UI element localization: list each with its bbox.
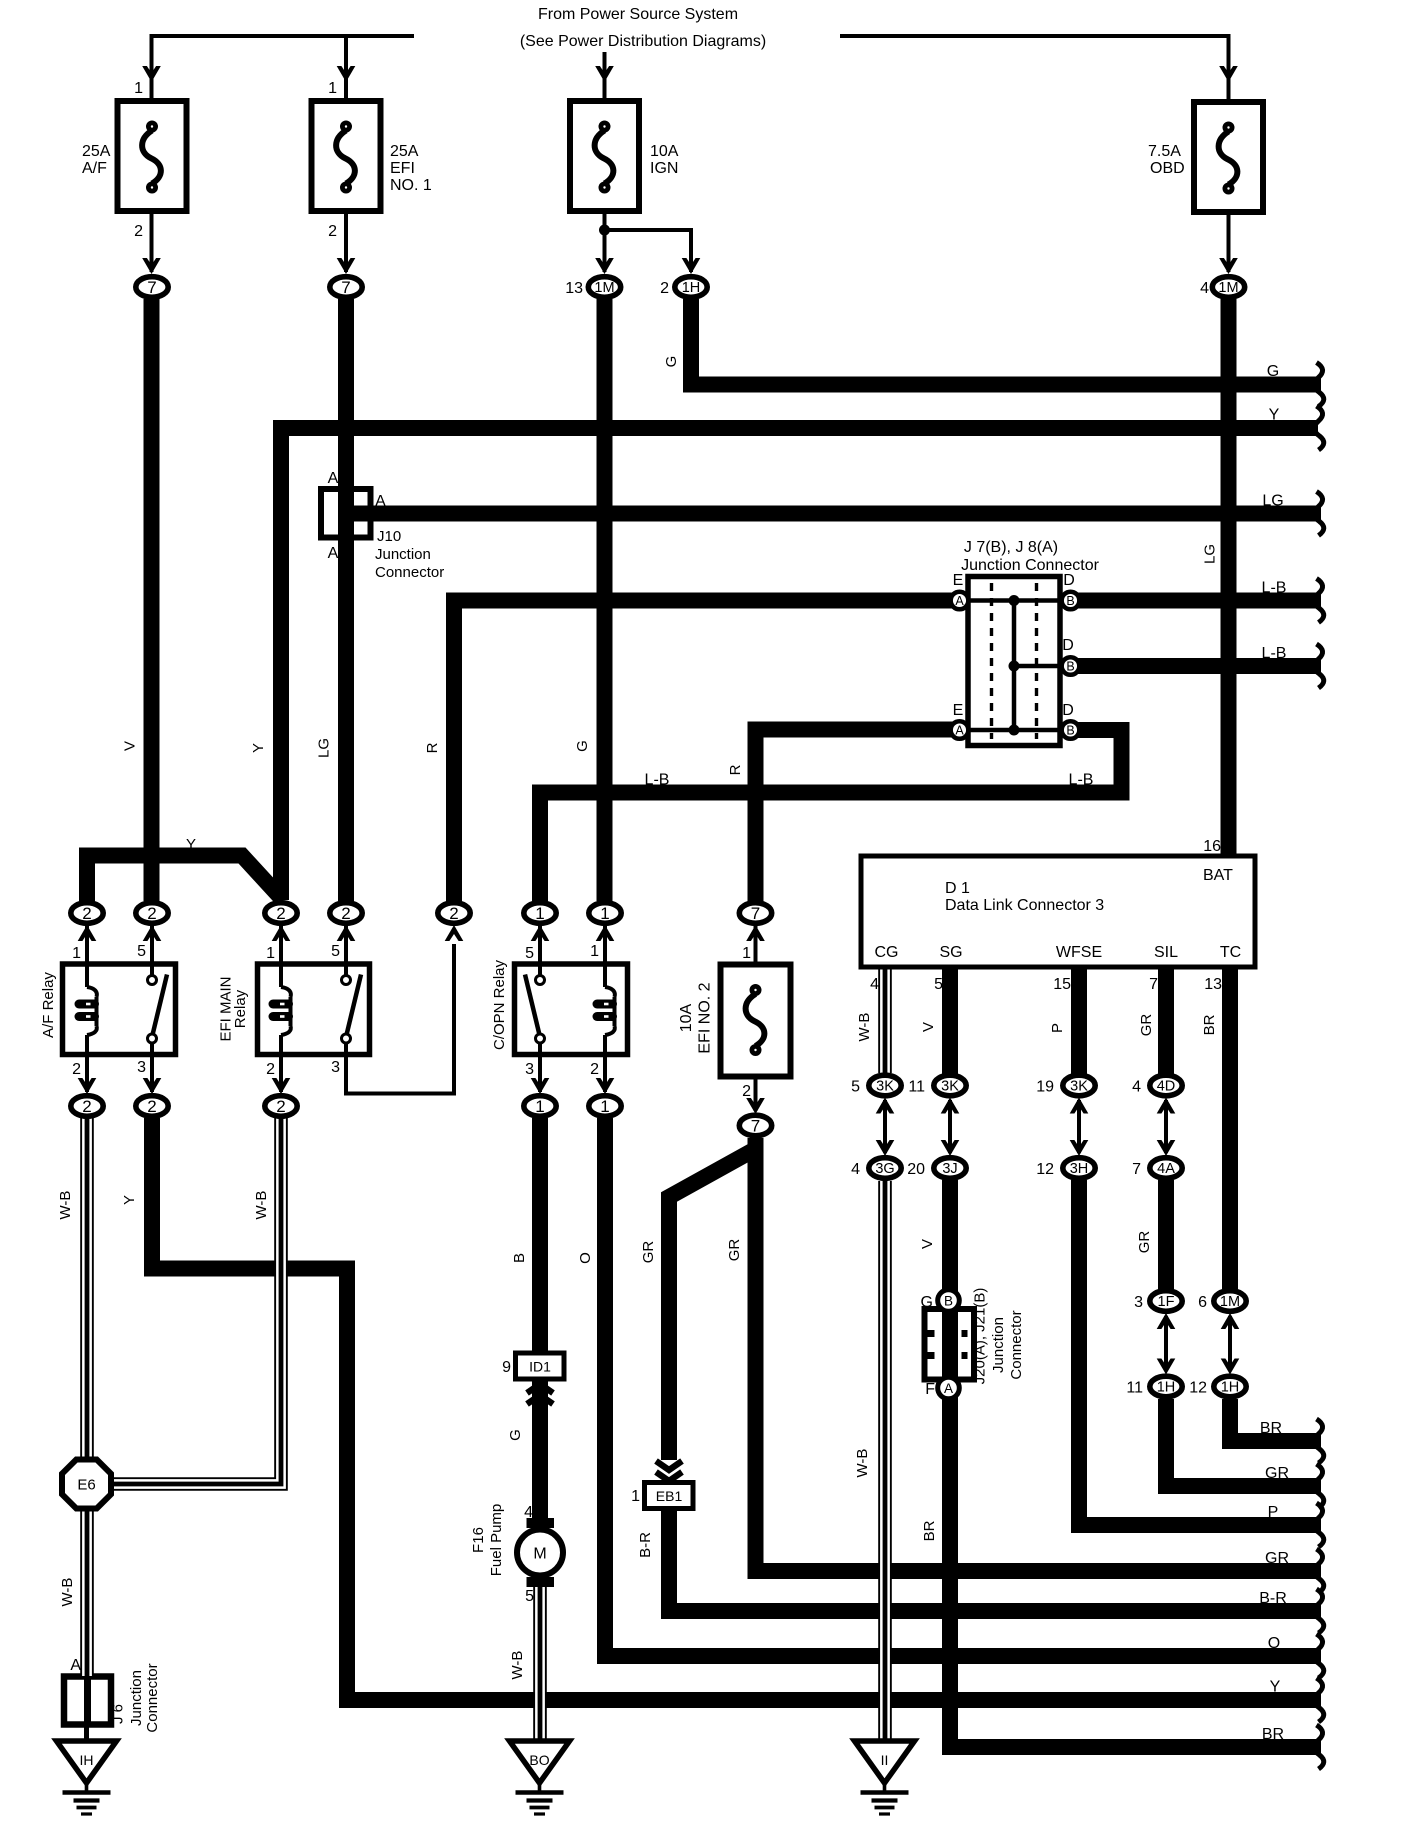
svg-text:V: V — [920, 1022, 937, 1032]
svg-text:G: G — [921, 1294, 933, 1311]
svg-text:G: G — [574, 740, 591, 752]
wire: IGN branch to connector 1H — [605, 230, 692, 272]
svg-text:ID1: ID1 — [529, 1359, 551, 1375]
svg-text:Y: Y — [1269, 407, 1280, 424]
wire LG: OBD fuse to DLC3 BAT terminal 16 — [1221, 299, 1237, 856]
svg-text:10A: 10A — [678, 1003, 695, 1032]
svg-text:7: 7 — [751, 1117, 760, 1136]
svg-text:J 7(B), J 8(A): J 7(B), J 8(A) — [964, 539, 1058, 556]
fuse 25A EFI NO.1 — [312, 101, 381, 211]
svg-text:BR: BR — [1260, 1420, 1282, 1437]
svg-text:LG: LG — [316, 738, 333, 758]
svg-text:3: 3 — [1134, 1294, 1143, 1311]
svg-text:D: D — [1063, 572, 1075, 589]
svg-text:L-B: L-B — [1069, 772, 1094, 789]
C/OPN relay switch — [538, 964, 542, 975]
svg-text:Data Link Connector 3: Data Link Connector 3 — [945, 897, 1104, 914]
svg-text:7: 7 — [1132, 1161, 1141, 1178]
wire B/G: C/OPN relay pin 3 through ID1 to fuel pump — [532, 1118, 548, 1520]
ground IH — [57, 1741, 117, 1783]
wire: lead into EFI NO.1 fuse — [344, 38, 348, 124]
svg-text:BAT: BAT — [1203, 867, 1233, 884]
svg-text:B: B — [1066, 660, 1074, 674]
wire GR: connector 1H to off-page right — [1166, 1399, 1321, 1486]
svg-text:1F: 1F — [1158, 1294, 1175, 1310]
svg-text:EFI NO. 2: EFI NO. 2 — [697, 982, 714, 1053]
svg-text:BR: BR — [1201, 1014, 1218, 1035]
relay EFI MAIN Relay box — [258, 964, 370, 1055]
wire Y: bus from column 281 to off-page right — [281, 428, 1318, 900]
svg-text:2: 2 — [328, 223, 337, 240]
svg-text:Junction Connector: Junction Connector — [961, 557, 1100, 574]
svg-text:1: 1 — [535, 1097, 544, 1116]
wire: C/OPN relay pin 3 lead — [538, 1055, 542, 1093]
svg-text:2: 2 — [276, 1097, 285, 1116]
svg-text:1H: 1H — [1157, 1380, 1176, 1396]
J20/J21 tabs — [928, 1330, 935, 1337]
connector 4 1M below OBD fuse — [1212, 277, 1244, 298]
svg-text:L-B: L-B — [645, 772, 670, 789]
svg-text:4: 4 — [524, 1504, 533, 1521]
svg-text:Junction: Junction — [128, 1670, 145, 1726]
svg-text:A: A — [328, 470, 339, 487]
svg-text:II: II — [881, 1752, 889, 1768]
svg-text:W-B: W-B — [253, 1191, 270, 1220]
wire GR: branch to EB1 — [669, 1149, 756, 1460]
svg-text:IH: IH — [80, 1752, 94, 1768]
wire GR: EFI NO.2 connector 7 down to off-page right — [756, 1138, 1322, 1571]
svg-text:B: B — [511, 1253, 528, 1263]
svg-text:J20(A), J21(B): J20(A), J21(B) — [972, 1288, 989, 1385]
connectors below relays — [71, 1096, 103, 1117]
wire: J6 to ground IH — [84, 1725, 89, 1742]
svg-text:V: V — [919, 1239, 936, 1249]
svg-text:7.5A: 7.5A — [1148, 143, 1181, 160]
wire P: DLC3 WFSE terminal to connector 3K — [1071, 967, 1087, 1074]
svg-text:W-B: W-B — [856, 1013, 873, 1042]
relay A/F Relay box — [63, 964, 176, 1055]
wire: A/F relay pin 2 lead — [85, 1055, 89, 1093]
svg-text:M: M — [533, 1546, 546, 1563]
svg-text:V: V — [122, 741, 139, 751]
svg-text:25A: 25A — [82, 143, 111, 160]
svg-text:Y: Y — [121, 1195, 138, 1205]
wire W-B: EFI MAIN relay pin 2 to E6 — [112, 1118, 281, 1484]
wire LG: EFI NO.1 fuse to EFI MAIN relay pin 5 — [338, 299, 354, 901]
svg-text:1M: 1M — [594, 280, 614, 296]
svg-text:4: 4 — [1200, 280, 1209, 297]
off-page squiggles right edge — [1314, 363, 1324, 407]
svg-text:Connector: Connector — [1008, 1310, 1025, 1379]
junction connector J10 wire + dot — [338, 489, 354, 538]
svg-text:EFI: EFI — [390, 160, 415, 177]
svg-text:SIL: SIL — [1154, 944, 1178, 961]
svg-text:11: 11 — [1126, 1380, 1143, 1397]
svg-text:P: P — [1049, 1023, 1066, 1033]
fuse 10A EFI NO.2 — [721, 965, 791, 1077]
wire: EFI MAIN relay pin 3 bypass to connector 2 — [346, 944, 454, 1094]
svg-text:12: 12 — [1036, 1161, 1054, 1178]
svg-text:GR: GR — [1136, 1231, 1153, 1254]
ground BO — [510, 1741, 570, 1783]
wire W-B: E6 to J6 junction connector — [80, 1509, 94, 1676]
wire W-B: fuel pump pin 5 to ground BO — [533, 1587, 547, 1740]
wire GR: connector 4A to connector 1F — [1158, 1180, 1174, 1289]
svg-text:E: E — [953, 702, 964, 719]
wire: EFI NO.2 fuse pin 1 lead — [754, 926, 758, 986]
svg-text:G: G — [507, 1429, 524, 1441]
svg-text:O: O — [577, 1252, 594, 1264]
svg-text:1: 1 — [134, 80, 143, 97]
svg-text:A: A — [944, 1381, 953, 1396]
wire G: IGN fuse to C/OPN relay pin 1 — [597, 299, 613, 901]
svg-text:W-B: W-B — [854, 1449, 871, 1478]
svg-text:1: 1 — [328, 80, 337, 97]
svg-text:W-B: W-B — [59, 1578, 76, 1607]
svg-text:7: 7 — [751, 904, 760, 923]
connector 7 below A/F fuse — [136, 277, 168, 298]
svg-text:3K: 3K — [876, 1079, 894, 1095]
svg-text:9: 9 — [502, 1359, 511, 1376]
svg-text:4: 4 — [851, 1161, 860, 1178]
connector 7 below EFI NO.1 fuse — [330, 277, 362, 298]
svg-text:2: 2 — [147, 904, 156, 923]
arrowhead into EFI NO.2 lower connector 7 — [746, 1098, 765, 1114]
svg-text:4: 4 — [870, 976, 879, 993]
wire: link 3K to 3H — [1077, 1100, 1081, 1153]
fuse 7.5A OBD — [1194, 102, 1263, 212]
svg-text:4D: 4D — [1157, 1079, 1176, 1095]
svg-text:A: A — [70, 1657, 81, 1674]
svg-text:2: 2 — [276, 904, 285, 923]
svg-text:LG: LG — [1262, 493, 1283, 510]
svg-text:A/F: A/F — [82, 160, 107, 177]
fuel pump F16 motor — [527, 1518, 555, 1528]
svg-text:B: B — [1066, 724, 1074, 738]
connector EB1 — [656, 1461, 682, 1470]
svg-text:NO. 1: NO. 1 — [390, 177, 432, 194]
arrowheads into fuses — [142, 66, 161, 82]
svg-text:GR: GR — [640, 1241, 657, 1264]
svg-text:5: 5 — [137, 943, 146, 960]
svg-text:5: 5 — [851, 1079, 860, 1096]
svg-text:TC: TC — [1220, 944, 1241, 961]
fuse 10A IGN — [570, 101, 639, 211]
svg-text:J 6: J 6 — [110, 1704, 127, 1724]
DLC3 column connectors — [869, 1075, 901, 1096]
svg-text:CG: CG — [875, 944, 899, 961]
wire G: connector 1H to off-page right — [691, 299, 1321, 385]
svg-text:13: 13 — [1204, 976, 1222, 993]
svg-text:2: 2 — [82, 1097, 91, 1116]
wire: link 3K to 3J — [948, 1100, 952, 1153]
svg-text:3: 3 — [525, 1061, 534, 1078]
svg-text:Connector: Connector — [375, 564, 444, 581]
relay C/OPN Relay box — [515, 964, 628, 1055]
svg-text:(See Power Distribution Diagra: (See Power Distribution Diagrams) — [520, 33, 766, 50]
svg-text:7: 7 — [147, 278, 156, 297]
svg-text:13: 13 — [565, 280, 583, 297]
svg-text:O: O — [1268, 1635, 1280, 1652]
svg-text:L-B: L-B — [1262, 580, 1287, 597]
svg-text:3K: 3K — [941, 1079, 959, 1095]
wire: OBD fuse pin 2 lead — [1227, 190, 1231, 272]
wire: IGN fuse pin 2 lead — [603, 190, 607, 272]
arrowheads between DLC3 pair connectors — [876, 1098, 895, 1114]
arrowheads into row-287 connectors — [142, 258, 161, 274]
wire: EFI MAIN relay pin 2 lead — [279, 1055, 283, 1093]
svg-text:3G: 3G — [875, 1161, 894, 1177]
svg-text:W-B: W-B — [509, 1651, 526, 1680]
svg-text:3K: 3K — [1070, 1079, 1088, 1095]
svg-text:2: 2 — [449, 904, 458, 923]
wire: C/OPN relay pin 1 lead — [603, 926, 607, 964]
wire: C/OPN relay pin 2 lead — [603, 1055, 607, 1093]
fuse 25A A/F — [118, 101, 187, 211]
svg-text:2: 2 — [590, 1061, 599, 1078]
svg-text:15: 15 — [1053, 976, 1071, 993]
A/F relay coil — [85, 964, 89, 987]
svg-text:2: 2 — [266, 1061, 275, 1078]
svg-text:D: D — [1062, 637, 1074, 654]
C/OPN relay coil — [603, 964, 607, 987]
svg-text:A: A — [955, 594, 964, 608]
svg-text:W-B: W-B — [57, 1191, 74, 1220]
svg-text:SG: SG — [939, 944, 962, 961]
connector D1 Data Link Connector 3 box — [861, 856, 1255, 967]
svg-text:1M: 1M — [1218, 280, 1238, 296]
svg-text:C/OPN Relay: C/OPN Relay — [491, 959, 508, 1050]
svg-text:4A: 4A — [1157, 1161, 1175, 1177]
svg-text:2: 2 — [72, 1061, 81, 1078]
svg-text:From Power Source System: From Power Source System — [538, 6, 738, 23]
wire L-B: J7/J8 pin D/B middle to off-page right — [1070, 658, 1321, 674]
svg-text:A: A — [955, 724, 964, 738]
svg-text:2: 2 — [82, 904, 91, 923]
svg-text:B: B — [1066, 594, 1074, 608]
svg-text:2: 2 — [341, 904, 350, 923]
svg-text:1: 1 — [631, 1488, 640, 1505]
wire LG: J10 branch to off-page right — [346, 506, 1322, 522]
wire: power source line to OBD fuse — [840, 36, 1229, 125]
svg-text:1: 1 — [535, 904, 544, 923]
ID1 chevrons — [527, 1384, 553, 1393]
svg-text:Fuel Pump: Fuel Pump — [488, 1504, 505, 1577]
junction connector J10 box — [321, 489, 371, 538]
svg-text:A/F Relay: A/F Relay — [40, 972, 57, 1038]
svg-text:Junction: Junction — [375, 546, 431, 563]
svg-text:R: R — [424, 742, 441, 753]
wire GR: DLC3 SIL terminal to connector 4D — [1158, 967, 1174, 1074]
svg-text:16: 16 — [1203, 838, 1221, 855]
junction connector J6 box — [64, 1677, 111, 1725]
svg-text:Y: Y — [250, 743, 267, 753]
svg-text:GR: GR — [1265, 1550, 1289, 1567]
svg-text:E6: E6 — [77, 1477, 95, 1494]
svg-text:BR: BR — [921, 1520, 938, 1541]
wire: link 1M to 1H — [1228, 1316, 1232, 1371]
wire Y: branch to A/F relay pin 1 — [87, 856, 281, 902]
svg-text:GR: GR — [726, 1239, 743, 1262]
svg-text:L-B: L-B — [1262, 645, 1287, 662]
wire: EFI MAIN relay pin 1 lead — [279, 926, 283, 964]
wire: link 4D to 4A — [1164, 1100, 1168, 1153]
svg-text:E: E — [953, 572, 964, 589]
svg-text:B-R: B-R — [637, 1532, 654, 1558]
svg-text:WFSE: WFSE — [1056, 944, 1102, 961]
svg-text:1M: 1M — [1220, 1294, 1240, 1310]
svg-text:5: 5 — [934, 976, 943, 993]
svg-text:B-R: B-R — [1259, 1590, 1287, 1607]
svg-text:Relay: Relay — [232, 989, 249, 1028]
wire W-B: DLC3 CG to ground II — [878, 967, 892, 1073]
svg-text:P: P — [1268, 1504, 1279, 1521]
wire: A/F fuse pin 2 lead — [150, 190, 154, 272]
svg-text:1: 1 — [742, 945, 751, 962]
svg-text:Y: Y — [1270, 1679, 1281, 1696]
svg-text:D: D — [1062, 702, 1074, 719]
svg-text:5: 5 — [525, 945, 534, 962]
svg-text:1: 1 — [590, 943, 599, 960]
wire BR: DLC3 TC terminal to connector 1M — [1222, 967, 1238, 1289]
svg-text:20: 20 — [907, 1161, 925, 1178]
svg-text:LG: LG — [1202, 544, 1219, 564]
svg-text:11: 11 — [908, 1079, 925, 1096]
wire V/BR: connector 3J down through J20/J21 to off-page BR — [950, 1180, 1321, 1747]
svg-text:3H: 3H — [1070, 1161, 1089, 1177]
svg-text:A: A — [328, 545, 339, 562]
wire: A/F relay pin 5 lead — [150, 926, 154, 964]
svg-text:2: 2 — [742, 1083, 751, 1100]
svg-text:2: 2 — [134, 223, 143, 240]
wire W-B: A/F relay pin 2 to E6 — [80, 1118, 94, 1459]
junction connector J7(B), J8(A) box — [968, 577, 1060, 746]
wire: EFI NO.1 fuse pin 2 lead — [344, 190, 348, 272]
svg-text:F16: F16 — [470, 1527, 487, 1553]
svg-text:2: 2 — [660, 280, 669, 297]
arrowheads out of relays — [78, 1078, 97, 1094]
svg-text:EB1: EB1 — [656, 1488, 683, 1504]
connector 2 1H — [675, 277, 707, 298]
wire L-B: J7/J8 lower pin D/B loop to C/OPN relay pin 5 — [540, 730, 1122, 901]
wire: A/F relay pin 1 lead — [85, 926, 89, 964]
svg-text:1H: 1H — [1221, 1380, 1240, 1396]
wire L-B: J7/J8 pin D/B to off-page right — [1070, 593, 1321, 609]
svg-text:12: 12 — [1189, 1380, 1207, 1397]
connector 13 1M below IGN fuse — [588, 277, 620, 298]
ground II — [855, 1741, 915, 1783]
wire: EFI MAIN relay pin 5 lead — [344, 926, 348, 964]
svg-text:6: 6 — [1198, 1294, 1207, 1311]
J20/J21 pin circles — [938, 1290, 960, 1312]
svg-text:GR: GR — [1138, 1014, 1155, 1037]
wire: link 1F to 1H — [1164, 1316, 1168, 1371]
J7/J8 dashed internals — [990, 583, 993, 739]
svg-text:5: 5 — [331, 943, 340, 960]
svg-text:J10: J10 — [377, 528, 401, 545]
svg-text:IGN: IGN — [650, 160, 678, 177]
svg-text:BO: BO — [529, 1752, 549, 1768]
svg-text:3: 3 — [331, 1059, 340, 1076]
svg-text:5: 5 — [525, 1588, 534, 1605]
A/F relay switch — [150, 964, 154, 975]
wire R: J7/J8 lower pin E/A to EFI NO.2 connector 7 — [756, 730, 961, 905]
svg-text:1: 1 — [600, 1097, 609, 1116]
svg-text:7: 7 — [341, 278, 350, 297]
svg-text:G: G — [663, 356, 680, 368]
wire V: DLC3 SG terminal to connector 3K — [942, 967, 958, 1074]
svg-text:1: 1 — [600, 904, 609, 923]
wire: C/OPN relay pin 5 lead — [538, 926, 542, 964]
svg-text:4: 4 — [1132, 1079, 1141, 1096]
svg-text:BR: BR — [1262, 1726, 1284, 1743]
wire: A/F relay pin 3 lead — [150, 1055, 154, 1093]
junction connector J20(A), J21(B) box — [925, 1309, 975, 1380]
svg-text:1: 1 — [266, 945, 275, 962]
svg-text:19: 19 — [1036, 1079, 1054, 1096]
connector E6 — [62, 1460, 111, 1509]
wire V: A/F fuse to A/F relay pin 5 — [144, 299, 160, 901]
EFI MAIN relay switch — [344, 964, 348, 975]
connectors above relays — [71, 903, 103, 924]
connector 7 below EFI NO.2 fuse — [739, 1115, 771, 1136]
svg-text:1: 1 — [72, 945, 81, 962]
svg-text:Junction: Junction — [990, 1317, 1007, 1373]
J7/J8 internal buses — [960, 598, 1070, 603]
svg-text:2: 2 — [147, 1097, 156, 1116]
wire: EFI NO.2 fuse pin 2 lead — [754, 1054, 758, 1111]
svg-text:3: 3 — [137, 1059, 146, 1076]
svg-text:R: R — [727, 764, 744, 775]
wire P: connector 3H to off-page right — [1079, 1180, 1321, 1525]
svg-text:B: B — [944, 1293, 953, 1308]
svg-text:GR: GR — [1265, 1465, 1289, 1482]
J6 wire — [84, 1676, 91, 1725]
wire Y: A/F relay pin 3 to off-page right — [152, 1118, 1321, 1700]
svg-text:7: 7 — [1149, 976, 1158, 993]
wire O: C/OPN relay pin 2 to off-page right — [605, 1118, 1321, 1656]
wire BR: connector 1H to off-page right — [1230, 1399, 1321, 1441]
svg-text:10A: 10A — [650, 143, 679, 160]
svg-text:A: A — [375, 493, 386, 510]
svg-text:25A: 25A — [390, 143, 419, 160]
svg-text:OBD: OBD — [1150, 160, 1185, 177]
wire: power source line to A/F fuse — [152, 36, 415, 124]
wire B-R: EB1 to off-page right — [669, 1507, 1321, 1611]
J7/J8 pin circles — [951, 592, 969, 610]
wire R: connector 2 up to junction connector J7/J8 pin E/A — [454, 601, 960, 905]
EFI MAIN relay coil — [279, 964, 283, 987]
wire: lead into IGN fuse — [603, 52, 607, 124]
svg-text:D 1: D 1 — [945, 880, 970, 897]
svg-text:3J: 3J — [942, 1161, 957, 1177]
wire: link 3K to 3G — [883, 1100, 887, 1153]
svg-text:Connector: Connector — [144, 1663, 161, 1732]
connector ID1 — [516, 1353, 565, 1379]
svg-text:F: F — [925, 1381, 935, 1398]
arrowheads into relay-row connectors — [78, 925, 97, 941]
connector 7 above EFI NO.2 fuse — [739, 903, 771, 924]
svg-text:G: G — [1267, 363, 1279, 380]
junction dot IGN branch — [599, 225, 610, 236]
svg-text:1H: 1H — [682, 280, 701, 296]
